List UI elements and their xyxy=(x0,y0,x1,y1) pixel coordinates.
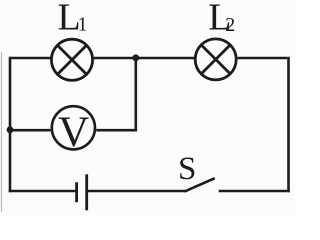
wire left vertical xyxy=(9,57,12,193)
wire middle vertical from junction xyxy=(135,58,138,130)
wire L1 to junction xyxy=(94,57,136,60)
svg-text:S: S xyxy=(178,151,196,187)
wire voltmeter to left junction xyxy=(10,129,51,132)
switch S arm xyxy=(184,178,214,191)
wire middle horizontal to voltmeter xyxy=(96,129,137,132)
lamp L2 xyxy=(195,39,236,80)
wire L2 to top-right corner xyxy=(238,57,288,60)
voltmeter U1 xyxy=(52,106,95,149)
wire right vertical xyxy=(287,57,290,193)
wire junction to L2 xyxy=(136,57,194,60)
wire top-left xyxy=(10,57,51,60)
svg-text:1: 1 xyxy=(78,14,88,36)
svg-text:2: 2 xyxy=(225,14,235,36)
wire switch to battery xyxy=(87,190,186,193)
battery cell long plate xyxy=(85,174,88,210)
wire battery to bottom-left corner xyxy=(9,190,77,193)
node junction dot top xyxy=(132,54,139,61)
lamp L1 xyxy=(51,39,92,80)
battery cell short plate xyxy=(75,182,78,202)
wire bottom-right xyxy=(219,190,290,193)
svg-text:V: V xyxy=(58,109,89,156)
scan artifact faint left line xyxy=(1,52,3,212)
node junction dot left xyxy=(7,126,14,133)
